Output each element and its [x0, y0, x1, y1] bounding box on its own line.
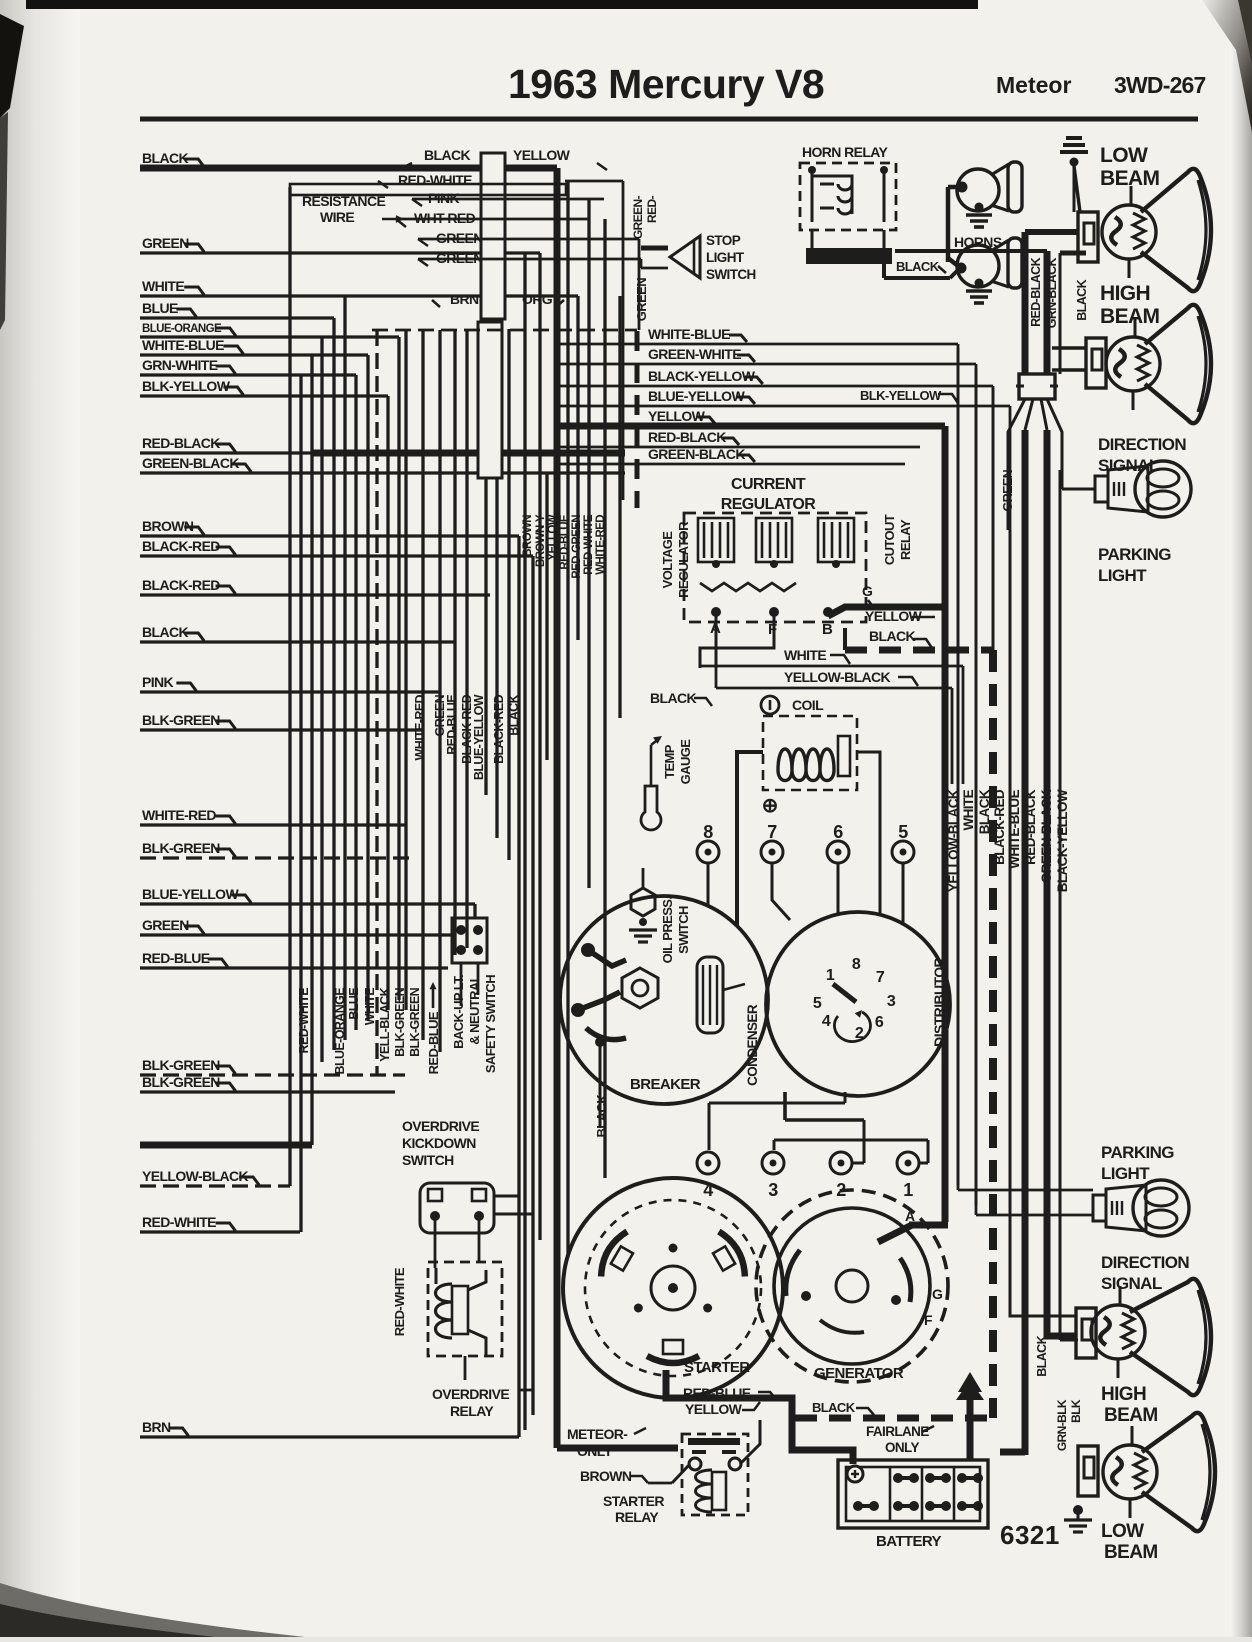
svg-text:BLACK: BLACK	[896, 259, 940, 274]
svg-text:DIRECTION: DIRECTION	[1101, 1253, 1189, 1272]
svg-text:VOLTAGE: VOLTAGE	[660, 531, 675, 589]
svg-text:HIGH: HIGH	[1100, 282, 1150, 305]
svg-text:LIGHT: LIGHT	[1098, 566, 1147, 585]
svg-text:RED-BLACK: RED-BLACK	[1023, 789, 1038, 865]
svg-text:WIRE: WIRE	[320, 209, 354, 225]
svg-text:SWITCH: SWITCH	[706, 267, 756, 282]
svg-text:BLACK: BLACK	[424, 147, 470, 163]
svg-text:ONLY: ONLY	[577, 1443, 613, 1459]
svg-text:BLK-YELLOW: BLK-YELLOW	[860, 388, 942, 403]
svg-text:RED-BLACK: RED-BLACK	[142, 435, 220, 451]
svg-text:BLK: BLK	[1069, 1399, 1083, 1423]
svg-text:HIGH: HIGH	[1101, 1384, 1146, 1405]
svg-text:LOW: LOW	[1100, 144, 1148, 167]
svg-text:SWITCH: SWITCH	[402, 1152, 454, 1168]
svg-text:BLACK: BLACK	[977, 789, 992, 834]
svg-text:BLACK: BLACK	[869, 628, 915, 644]
svg-text:RED-BLUE: RED-BLUE	[142, 950, 210, 966]
svg-text:LOW: LOW	[1101, 1521, 1144, 1542]
svg-text:BLK-GREEN: BLK-GREEN	[142, 1057, 220, 1073]
svg-text:3: 3	[768, 1180, 778, 1200]
svg-text:6321: 6321	[1000, 1520, 1060, 1550]
svg-text:GENERATOR: GENERATOR	[814, 1365, 904, 1382]
svg-text:BLACK: BLACK	[650, 690, 696, 706]
svg-text:OVERDRIVE: OVERDRIVE	[432, 1386, 509, 1402]
svg-text:RESISTANCE: RESISTANCE	[302, 193, 385, 209]
svg-text:RELAY: RELAY	[615, 1509, 659, 1525]
svg-text:RED-GREEN: RED-GREEN	[571, 515, 583, 579]
svg-text:PINK: PINK	[142, 674, 174, 690]
svg-text:BLUE-YELLOW: BLUE-YELLOW	[472, 694, 486, 780]
svg-text:OVERDRIVE: OVERDRIVE	[402, 1118, 479, 1134]
svg-text:1963 Mercury V8: 1963 Mercury V8	[508, 61, 824, 107]
svg-text:6: 6	[875, 1014, 884, 1031]
svg-text:GREEN-BLACK: GREEN-BLACK	[648, 446, 745, 462]
svg-text:BLK-GREEN: BLK-GREEN	[408, 987, 422, 1056]
svg-text:6: 6	[833, 822, 843, 842]
svg-text:YELLOW: YELLOW	[513, 147, 571, 163]
svg-text:WHITE-BLUE: WHITE-BLUE	[648, 326, 730, 342]
svg-text:LIGHT: LIGHT	[706, 250, 745, 265]
svg-text:RED-: RED-	[645, 195, 659, 223]
svg-text:BLK-GREEN: BLK-GREEN	[142, 1074, 220, 1090]
svg-text:BLUE: BLUE	[347, 988, 361, 1020]
svg-text:DIRECTION: DIRECTION	[1098, 435, 1186, 454]
svg-text:GRN-BLACK: GRN-BLACK	[1045, 257, 1059, 328]
svg-text:BLACK: BLACK	[142, 624, 188, 640]
svg-text:WHITE: WHITE	[961, 789, 976, 830]
svg-text:BLACK-RED: BLACK-RED	[142, 538, 220, 554]
svg-text:BLK-GREEN: BLK-GREEN	[393, 987, 407, 1056]
svg-text:Meteor: Meteor	[996, 72, 1071, 98]
svg-text:RED-BLUE: RED-BLUE	[683, 1385, 751, 1401]
svg-text:STARTER: STARTER	[684, 1359, 750, 1376]
svg-text:BLUE-ORANGE: BLUE-ORANGE	[142, 323, 222, 335]
svg-text:⊕: ⊕	[762, 795, 779, 817]
svg-text:PARKING: PARKING	[1101, 1143, 1174, 1162]
svg-text:RED-WHITE: RED-WHITE	[398, 172, 472, 188]
svg-text:GAUGE: GAUGE	[678, 739, 693, 785]
svg-text:WHITE-BLUE: WHITE-BLUE	[142, 337, 224, 353]
svg-text:8: 8	[852, 956, 861, 973]
svg-text:GREEN: GREEN	[142, 235, 189, 251]
svg-text:BLACK-RED: BLACK-RED	[142, 577, 220, 593]
svg-text:ORG: ORG	[522, 291, 553, 307]
svg-text:WHITE-RED: WHITE-RED	[595, 515, 607, 575]
svg-text:REGULATOR: REGULATOR	[721, 496, 816, 513]
svg-text:BLUE-ORANGE: BLUE-ORANGE	[333, 988, 347, 1075]
svg-text:WHITE-RED: WHITE-RED	[413, 694, 427, 760]
svg-text:BLACK: BLACK	[812, 1400, 856, 1415]
svg-text:STARTER: STARTER	[603, 1493, 664, 1509]
svg-text:PARKING: PARKING	[1098, 545, 1171, 564]
svg-text:GREEN-BLACK: GREEN-BLACK	[1039, 789, 1054, 883]
svg-text:FAIRLANE: FAIRLANE	[866, 1424, 929, 1439]
svg-text:1: 1	[903, 1180, 913, 1200]
svg-text:3: 3	[887, 993, 896, 1010]
svg-text:SAFETY SWITCH: SAFETY SWITCH	[483, 975, 498, 1073]
svg-text:RELAY: RELAY	[898, 519, 913, 560]
svg-text:G: G	[862, 583, 873, 599]
svg-text:BLUE-YELLOW: BLUE-YELLOW	[142, 886, 239, 902]
svg-text:GREEN-: GREEN-	[631, 195, 645, 239]
svg-text:RED-WHITE: RED-WHITE	[297, 988, 311, 1054]
svg-text:GRN-BLK: GRN-BLK	[1055, 1399, 1069, 1451]
svg-text:GREEN-WHITE: GREEN-WHITE	[648, 346, 741, 362]
svg-text:BEAM: BEAM	[1104, 1405, 1158, 1426]
svg-text:YELLOW: YELLOW	[648, 408, 706, 424]
svg-text:GREEN: GREEN	[634, 278, 649, 321]
svg-text:RELAY: RELAY	[450, 1403, 494, 1419]
svg-text:BLACK-YELLOW: BLACK-YELLOW	[1055, 789, 1070, 892]
svg-text:GREEN: GREEN	[1001, 469, 1015, 511]
svg-text:KICKDOWN: KICKDOWN	[402, 1135, 476, 1151]
svg-text:OIL PRESS.: OIL PRESS.	[660, 897, 675, 964]
svg-text:COIL: COIL	[792, 697, 824, 713]
svg-text:GRN-WHITE: GRN-WHITE	[142, 357, 218, 373]
svg-text:BROWN: BROWN	[522, 515, 534, 557]
svg-text:YELLOW: YELLOW	[685, 1401, 743, 1417]
svg-text:A: A	[905, 1208, 915, 1224]
svg-text:BLK-GREEN: BLK-GREEN	[142, 840, 220, 856]
svg-text:BLACK-RED: BLACK-RED	[492, 694, 506, 763]
svg-text:YELLOW-BLACK: YELLOW-BLACK	[142, 1168, 249, 1184]
svg-text:RED-BLUE: RED-BLUE	[559, 514, 571, 570]
svg-text:DISTRIBUTOR: DISTRIBUTOR	[931, 958, 947, 1047]
svg-text:LIGHT: LIGHT	[1101, 1164, 1150, 1183]
svg-text:HORNS: HORNS	[954, 234, 1002, 250]
svg-text:G: G	[932, 1286, 943, 1302]
svg-text:STOP: STOP	[706, 233, 741, 248]
svg-text:BLACK: BLACK	[1075, 279, 1089, 320]
svg-text:RED-WHITE: RED-WHITE	[583, 514, 595, 575]
svg-text:SIGNAL: SIGNAL	[1101, 1274, 1162, 1293]
svg-text:BLACK-YELLOW: BLACK-YELLOW	[648, 368, 756, 384]
svg-text:BLUE: BLUE	[142, 300, 178, 316]
svg-text:5: 5	[813, 995, 822, 1012]
svg-text:BLACK: BLACK	[142, 150, 188, 166]
svg-text:HORN RELAY: HORN RELAY	[802, 144, 889, 160]
svg-text:7: 7	[767, 822, 777, 842]
svg-text:GREEN: GREEN	[142, 917, 189, 933]
svg-text:TEMP: TEMP	[662, 744, 677, 779]
svg-text:BLUE-YELLOW: BLUE-YELLOW	[648, 388, 745, 404]
svg-text:YELLOW: YELLOW	[547, 514, 559, 560]
svg-text:ONLY: ONLY	[885, 1440, 919, 1455]
svg-text:8: 8	[703, 822, 713, 842]
svg-text:RED-WHITE: RED-WHITE	[142, 1214, 216, 1230]
svg-text:WHITE-RED: WHITE-RED	[142, 807, 216, 823]
svg-text:CONDENSER: CONDENSER	[745, 1004, 760, 1086]
svg-text:5: 5	[898, 822, 908, 842]
svg-text:BEAM: BEAM	[1100, 305, 1160, 328]
svg-text:BROWN: BROWN	[580, 1468, 632, 1484]
svg-text:BLACK: BLACK	[1035, 1335, 1049, 1376]
svg-text:SWITCH: SWITCH	[676, 906, 691, 954]
svg-text:GREEN-BLACK: GREEN-BLACK	[142, 455, 239, 471]
svg-text:BREAKER: BREAKER	[630, 1076, 701, 1093]
svg-text:BATTERY: BATTERY	[876, 1533, 942, 1550]
svg-text:CURRENT: CURRENT	[731, 476, 806, 493]
svg-text:BLK-YELLOW: BLK-YELLOW	[142, 378, 231, 394]
svg-text:BEAM: BEAM	[1104, 1542, 1158, 1563]
svg-text:RED-BLUE: RED-BLUE	[426, 1011, 441, 1074]
svg-text:BRN: BRN	[450, 291, 479, 307]
svg-text:7: 7	[876, 969, 885, 986]
svg-text:RED-BLACK: RED-BLACK	[1029, 257, 1043, 326]
svg-text:CUTOUT: CUTOUT	[882, 514, 897, 565]
svg-text:BLACK-RED: BLACK-RED	[992, 789, 1007, 865]
svg-text:4: 4	[822, 1013, 831, 1030]
svg-text:YELL-BLACK: YELL-BLACK	[378, 987, 392, 1061]
svg-text:BLACK: BLACK	[507, 694, 521, 735]
svg-text:RED-BLACK: RED-BLACK	[648, 429, 726, 445]
svg-text:F: F	[924, 1312, 933, 1328]
svg-text:WHITE: WHITE	[142, 278, 184, 294]
svg-text:BLK-GREEN: BLK-GREEN	[142, 712, 220, 728]
svg-text:RED-WHITE: RED-WHITE	[392, 1267, 407, 1336]
svg-text:1: 1	[826, 967, 835, 984]
svg-text:YELLOW-BLACK: YELLOW-BLACK	[784, 669, 891, 685]
svg-text:3WD-267: 3WD-267	[1114, 72, 1206, 98]
svg-text:RED-BLUE: RED-BLUE	[445, 695, 459, 755]
svg-text:BROWN-Y: BROWN-Y	[535, 514, 547, 567]
svg-text:WHITE: WHITE	[363, 988, 377, 1026]
svg-text:& NEUTRAL: & NEUTRAL	[467, 974, 482, 1044]
svg-text:B: B	[822, 621, 833, 638]
svg-text:REGULATOR: REGULATOR	[676, 521, 691, 598]
svg-text:BACK-UP LT.: BACK-UP LT.	[451, 975, 466, 1049]
svg-text:METEOR-: METEOR-	[567, 1426, 628, 1442]
svg-text:BRN: BRN	[142, 1419, 171, 1435]
svg-text:WHITE: WHITE	[784, 647, 826, 663]
